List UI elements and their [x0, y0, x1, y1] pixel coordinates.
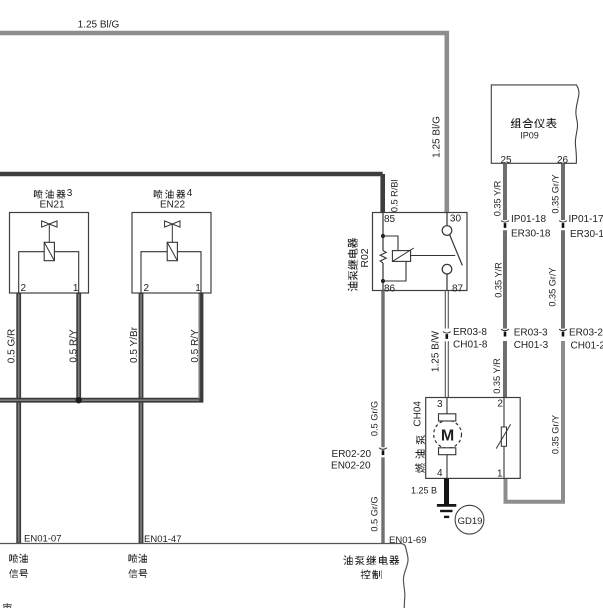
svg-text:2: 2: [21, 283, 27, 294]
wire 0.35 Gr/Y from pin 26: [561, 164, 565, 329]
svg-text:M: M: [441, 428, 454, 445]
svg-text:0.5 G/R: 0.5 G/R: [6, 329, 17, 363]
relay resistor zigzag: [380, 251, 386, 263]
label 油泵继电器/控制: [343, 555, 352, 565]
svg-text:1.25 Bl/G: 1.25 Bl/G: [78, 20, 120, 31]
svg-text:ER03-8: ER03-8: [453, 327, 487, 338]
svg-text:ER02-20: ER02-20: [332, 449, 372, 460]
svg-text:1: 1: [195, 283, 201, 294]
fuel pump CH04 box: [426, 398, 521, 479]
svg-text:IP01-18: IP01-18: [511, 214, 546, 225]
label 喷油/信号 (EN01-07): [9, 554, 18, 563]
relay coil stubs: [383, 236, 406, 281]
wire 1.25 B from pump pin 4 to ground: [444, 478, 449, 504]
svg-text:1.25 Bl/G: 1.25 Bl/G: [432, 116, 443, 158]
motor brushes: [439, 414, 456, 421]
injector EN22 solenoid coil: [167, 242, 177, 260]
relay actuating link: [411, 255, 456, 257]
relay switch arm: [450, 235, 463, 266]
svg-text:2: 2: [144, 283, 150, 294]
svg-text:ER03-3: ER03-3: [514, 328, 548, 339]
svg-text:3: 3: [437, 399, 443, 410]
ECU box top edge with torn right edge: [0, 544, 408, 609]
motor M1 dashed rotor circle: [434, 420, 462, 448]
connector ER03-2: [559, 329, 567, 336]
svg-text:2: 2: [497, 399, 503, 410]
partial 审 character bottom left: [3, 603, 12, 613]
wire 0.5 G/R from EN21 pin2 down to ECU: [16, 293, 21, 544]
injector EN21 solenoid coil: [44, 242, 54, 260]
wire 0.5 Y/Br from EN22 pin2 down to ECU: [139, 293, 144, 544]
svg-text:4: 4: [437, 468, 443, 479]
connector ER03-8: [443, 332, 451, 339]
label 燃油泵 CH04 (rotated): [413, 401, 425, 473]
wire 1.25 B/W double-line from relay pin 87 to pump pin 3: [445, 291, 448, 398]
svg-text:CH01-2: CH01-2: [571, 341, 603, 352]
svg-text:ER30-18: ER30-18: [511, 229, 551, 240]
svg-text:1.25 B/W: 1.25 B/W: [431, 330, 442, 372]
instrument cluster IP09 box (torn right edge): [491, 85, 579, 163]
connector IP01-17: [559, 221, 567, 228]
label 喷油/信号 (EN01-47): [128, 554, 137, 563]
svg-text:0.35 Y/R: 0.35 Y/R: [492, 358, 502, 394]
ground tag GD19: [455, 505, 484, 534]
injector EN22 nozzle bowtie symbol: [165, 221, 180, 227]
svg-text:0.35 Y/R: 0.35 Y/R: [493, 180, 503, 216]
junction dot on bus: [76, 397, 82, 403]
svg-text:0.5 R/Bl: 0.5 R/Bl: [390, 179, 400, 212]
svg-text:EN01-47: EN01-47: [144, 534, 182, 545]
svg-text:3: 3: [67, 188, 73, 199]
svg-text:1: 1: [497, 469, 503, 480]
svg-text:EN01-07: EN01-07: [24, 534, 62, 545]
svg-text:EN01-69: EN01-69: [389, 535, 427, 546]
wire 0.35 Y/R from pin 25: [503, 164, 507, 398]
svg-text:0.35 Y/R: 0.35 Y/R: [493, 262, 503, 298]
motor feed wires: [446, 398, 448, 479]
svg-text:30: 30: [450, 214, 462, 225]
svg-text:R02: R02: [359, 248, 371, 267]
relay contact 87 terminal: [442, 264, 452, 274]
injector EN22 pin bracket: [141, 252, 201, 293]
svg-text:EN02-20: EN02-20: [331, 461, 371, 472]
wire 0.5 Gr/G from relay pin 86 down: [381, 291, 384, 544]
svg-text:ER30-17: ER30-17: [570, 229, 603, 240]
relay contact 30 terminal: [446, 213, 448, 226]
injector EN22 box: [132, 213, 211, 294]
svg-text:0.5 Y/Br: 0.5 Y/Br: [129, 326, 140, 363]
label 喷油器3: [34, 190, 43, 198]
svg-text:EN21: EN21: [39, 200, 64, 211]
ground symbol: [437, 504, 456, 507]
svg-text:0.35 Gr/Y: 0.35 Gr/Y: [550, 174, 560, 213]
svg-text:0.35 Gr/Y: 0.35 Gr/Y: [547, 267, 557, 306]
relay coil branch vertical: [382, 213, 384, 291]
svg-text:CH04: CH04: [413, 401, 424, 427]
svg-text:CH01-8: CH01-8: [453, 340, 488, 351]
connector ER02-20: [379, 448, 387, 455]
label 喷油器4: [154, 190, 163, 198]
svg-text:EN22: EN22: [160, 200, 185, 211]
svg-text:0.5 R/Y: 0.5 R/Y: [190, 329, 201, 363]
wire: 1.25 Bl/G horizontal bus from left edge, turning down to relay pin 30: [0, 33, 447, 213]
injector EN21 nozzle bowtie symbol: [42, 221, 57, 227]
svg-text:86: 86: [384, 284, 396, 295]
relay R02 box: [373, 213, 468, 291]
connector IP01-18: [501, 221, 509, 228]
svg-text:0.5 Gr/G: 0.5 Gr/G: [370, 401, 380, 436]
injector EN21 stem wire: [48, 224, 50, 242]
injector EN21 box: [10, 213, 89, 294]
svg-text:87: 87: [452, 284, 464, 295]
svg-text:1: 1: [73, 283, 79, 294]
relay coil box: [392, 251, 410, 262]
wire: 0.5 R/Bl dark feed from left edge, turning down to relay pin 85: [0, 174, 383, 213]
label 组合仪表: [511, 118, 521, 128]
svg-text:CH01-3: CH01-3: [514, 340, 549, 351]
svg-text:0.35 Gr/Y: 0.35 Gr/Y: [550, 415, 560, 454]
svg-text:0.5 R/Y: 0.5 R/Y: [68, 329, 79, 363]
relay junction dots: [381, 234, 385, 238]
svg-text:1.25 B: 1.25 B: [411, 486, 437, 496]
svg-text:GD19: GD19: [458, 516, 483, 527]
injector EN22 stem wire: [171, 224, 173, 242]
label 油泵继电器 (rotated): [347, 238, 357, 291]
wire 0.35 Gr/Y lower run to pump pin 1: [506, 341, 564, 502]
connector ER03-3: [501, 329, 509, 336]
svg-text:0.5 Gr/G: 0.5 Gr/G: [370, 496, 380, 531]
svg-text:IP01-17: IP01-17: [569, 214, 603, 225]
svg-text:85: 85: [384, 214, 396, 225]
svg-text:4: 4: [187, 188, 193, 199]
svg-text:ER03-2: ER03-2: [569, 328, 603, 339]
injector EN21 pin bracket: [19, 252, 79, 293]
wire 0.5 R/Y from EN21 pin1 down to bus: [76, 293, 81, 400]
svg-text:IP09: IP09: [520, 131, 539, 141]
wire 0.5 R/Y from EN22 pin1 down, turning into horizontal bus to left edge: [0, 293, 201, 400]
fuel sender resistor: [503, 398, 505, 479]
